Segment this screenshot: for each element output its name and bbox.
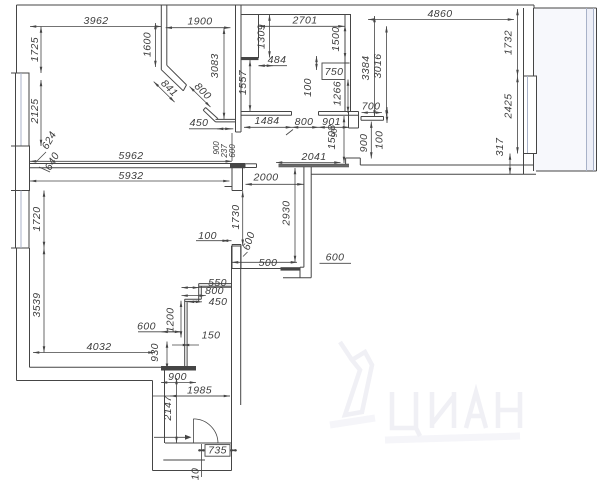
- bar below pier: [241, 58, 259, 61]
- dim 900 corridor: [161, 382, 196, 384]
- dim 4032: [33, 352, 155, 354]
- svg-text:1600: 1600: [142, 32, 154, 57]
- bathroom pier block: [241, 15, 259, 58]
- dim 100 pier: [386, 107, 388, 123]
- svg-text:600: 600: [228, 144, 237, 158]
- entrance door arc: [193, 419, 218, 444]
- dim 841: [154, 82, 175, 103]
- diagonal wall 841: [161, 70, 183, 91]
- hall top wall stub right of tee: [245, 163, 257, 165]
- dim 2930: [294, 168, 296, 262]
- dim 3962: [30, 26, 162, 28]
- dim 600 room: [138, 331, 181, 333]
- svg-text:2425: 2425: [503, 94, 515, 120]
- dim 1985: [152, 395, 230, 397]
- balcony glazing lines: [586, 8, 588, 171]
- dim 150: [172, 344, 199, 346]
- balcony tint: [534, 8, 597, 171]
- svg-text:1557: 1557: [237, 69, 249, 95]
- dim 1309: [269, 15, 271, 58]
- corridor right wall: [231, 246, 233, 471]
- watermark text CIAN: [392, 392, 520, 436]
- wall C hall part: [348, 112, 350, 129]
- dim 1557: [249, 60, 251, 112]
- svg-text:900: 900: [168, 371, 187, 383]
- svg-text:484: 484: [268, 54, 287, 66]
- svg-text:3539: 3539: [31, 293, 43, 318]
- right exterior wall upper (above balcony window): [523, 8, 525, 76]
- window 1 left: [15, 73, 17, 146]
- dim 2147: [176, 378, 178, 443]
- dim 10: [201, 444, 203, 477]
- svg-text:1725: 1725: [29, 37, 41, 62]
- window 2 left: [15, 191, 17, 249]
- wall C bathroom part: [344, 15, 346, 112]
- svg-text:1720: 1720: [31, 207, 43, 232]
- outer top wall: [17, 4, 535, 6]
- dim 1266: [347, 80, 349, 114]
- svg-text:2125: 2125: [29, 99, 41, 125]
- box 735: [205, 445, 230, 457]
- leader 640: [39, 167, 50, 172]
- svg-text:3962: 3962: [84, 15, 109, 27]
- dim 2041: [276, 162, 341, 164]
- dim 317: [509, 154, 511, 175]
- wall D between top-left and middle rooms: [160, 5, 162, 70]
- dim 450c: [188, 301, 202, 303]
- svg-text:1200: 1200: [165, 308, 177, 333]
- dim 3539: [43, 248, 45, 353]
- dim 4860: [368, 19, 514, 21]
- svg-text:800: 800: [295, 116, 314, 128]
- hall right wall: [303, 167, 305, 267]
- svg-text:4860: 4860: [428, 8, 453, 20]
- svg-text:5962: 5962: [119, 150, 144, 162]
- svg-text:100: 100: [198, 230, 217, 242]
- bathroom top inner face: [241, 14, 351, 16]
- svg-text:2701: 2701: [292, 15, 318, 27]
- svg-text:3083: 3083: [209, 53, 221, 78]
- svg-text:735: 735: [208, 445, 227, 457]
- hall bottom wall fragment (dark bar): [281, 267, 301, 270]
- corridor upper right wall piece (600): [231, 245, 233, 269]
- dim 1732: [517, 9, 519, 76]
- dim 484: [259, 65, 288, 67]
- dim 1900: [166, 27, 231, 29]
- balcony outline top-right: [533, 5, 535, 8]
- svg-text:2930: 2930: [281, 201, 293, 227]
- wall below tee junction: [231, 168, 233, 191]
- dim 1484: [244, 126, 292, 128]
- svg-text:10: 10: [190, 468, 202, 480]
- dim 900 right: [370, 122, 372, 159]
- right room bottom wall: [360, 164, 534, 166]
- pier 700: [361, 116, 384, 118]
- svg-text:600: 600: [326, 252, 345, 264]
- dim 1500: [344, 25, 346, 59]
- dim 2000: [246, 183, 304, 185]
- dim 735: [198, 449, 205, 451]
- dim 930: [166, 342, 168, 370]
- corridor partition walls: [199, 283, 232, 285]
- svg-text:317: 317: [494, 137, 506, 156]
- watermark bird: [340, 342, 372, 415]
- svg-text:600: 600: [137, 321, 156, 333]
- dim 2425: [517, 76, 519, 154]
- pier between windows: [16, 146, 30, 191]
- svg-text:5932: 5932: [119, 170, 144, 182]
- dim 500: [232, 261, 297, 263]
- hall/right-room lower wall bar 2041: [279, 163, 350, 165]
- svg-text:100: 100: [302, 78, 314, 97]
- dim 1720: [43, 191, 45, 249]
- corridor outline: [152, 381, 154, 471]
- diagonal wall lower: [203, 110, 215, 122]
- svg-text:3016: 3016: [372, 54, 384, 79]
- dim 100 bath: [316, 56, 318, 70]
- bathroom bottom wall seg B: [319, 111, 359, 113]
- svg-text:1900: 1900: [188, 16, 213, 28]
- dim 3384: [374, 16, 376, 117]
- svg-text:750: 750: [325, 66, 344, 78]
- svg-text:450: 450: [209, 296, 228, 308]
- dim 800c: [182, 295, 206, 297]
- dim 2701: [259, 25, 345, 27]
- dim 1725: [40, 27, 42, 74]
- left exterior wall top: [16, 5, 18, 73]
- dim 600 hall: [320, 262, 352, 264]
- svg-text:100: 100: [374, 131, 386, 150]
- svg-text:900: 900: [358, 134, 370, 153]
- stub to wall A: [216, 118, 236, 120]
- dim 700: [362, 112, 383, 114]
- svg-text:1309: 1309: [256, 24, 268, 49]
- window cap lines left wall: [11, 72, 30, 74]
- dim 1730: [242, 191, 244, 246]
- svg-text:2000: 2000: [253, 172, 279, 184]
- dim 2125: [40, 80, 42, 146]
- leader 624: [36, 152, 46, 162]
- dim 5962: [30, 160, 232, 162]
- dim 550: [182, 287, 233, 289]
- svg-text:1484: 1484: [255, 115, 280, 127]
- dim 450: [189, 128, 233, 130]
- balcony window block: [524, 76, 537, 154]
- svg-text:500: 500: [259, 257, 278, 269]
- svg-text:3384: 3384: [360, 56, 372, 81]
- bathroom bottom wall seg A: [241, 111, 292, 113]
- dim 1200: [180, 301, 182, 338]
- svg-text:930: 930: [149, 343, 161, 362]
- svg-text:1732: 1732: [503, 30, 515, 55]
- svg-text:1508: 1508: [326, 125, 338, 150]
- svg-text:2147: 2147: [162, 395, 174, 422]
- dim 100 door: [196, 240, 232, 242]
- duct box 750: [322, 63, 345, 80]
- dim 800 diag: [190, 87, 211, 108]
- 900 wall bar: [161, 366, 196, 371]
- dim 901: [319, 126, 350, 128]
- entrance arrow: [154, 436, 185, 438]
- svg-text:150: 150: [202, 330, 221, 342]
- svg-text:700: 700: [362, 101, 381, 113]
- svg-text:1730: 1730: [230, 205, 242, 230]
- svg-text:1266: 1266: [332, 81, 344, 106]
- leader 600 door: [243, 252, 248, 257]
- dim 800 door: [292, 126, 319, 128]
- wall A between left room and bathroom: [235, 5, 237, 132]
- svg-text:2041: 2041: [301, 151, 327, 163]
- right exterior wall lower: [524, 153, 537, 155]
- dim 1600: [154, 23, 156, 67]
- dim 3083: [223, 28, 225, 119]
- svg-text:1985: 1985: [187, 385, 212, 397]
- door swing tick 800 door: [286, 130, 293, 136]
- long interior wall 5962: [30, 163, 246, 165]
- bottom-left room bottom walls: [17, 380, 153, 382]
- svg-text:1500: 1500: [330, 27, 342, 52]
- dim 3016: [386, 26, 388, 116]
- svg-text:450: 450: [190, 117, 209, 129]
- left exterior wall lower: [16, 248, 18, 381]
- dim 5932: [30, 180, 230, 182]
- dim 1508: [343, 116, 345, 163]
- svg-text:4032: 4032: [87, 341, 112, 353]
